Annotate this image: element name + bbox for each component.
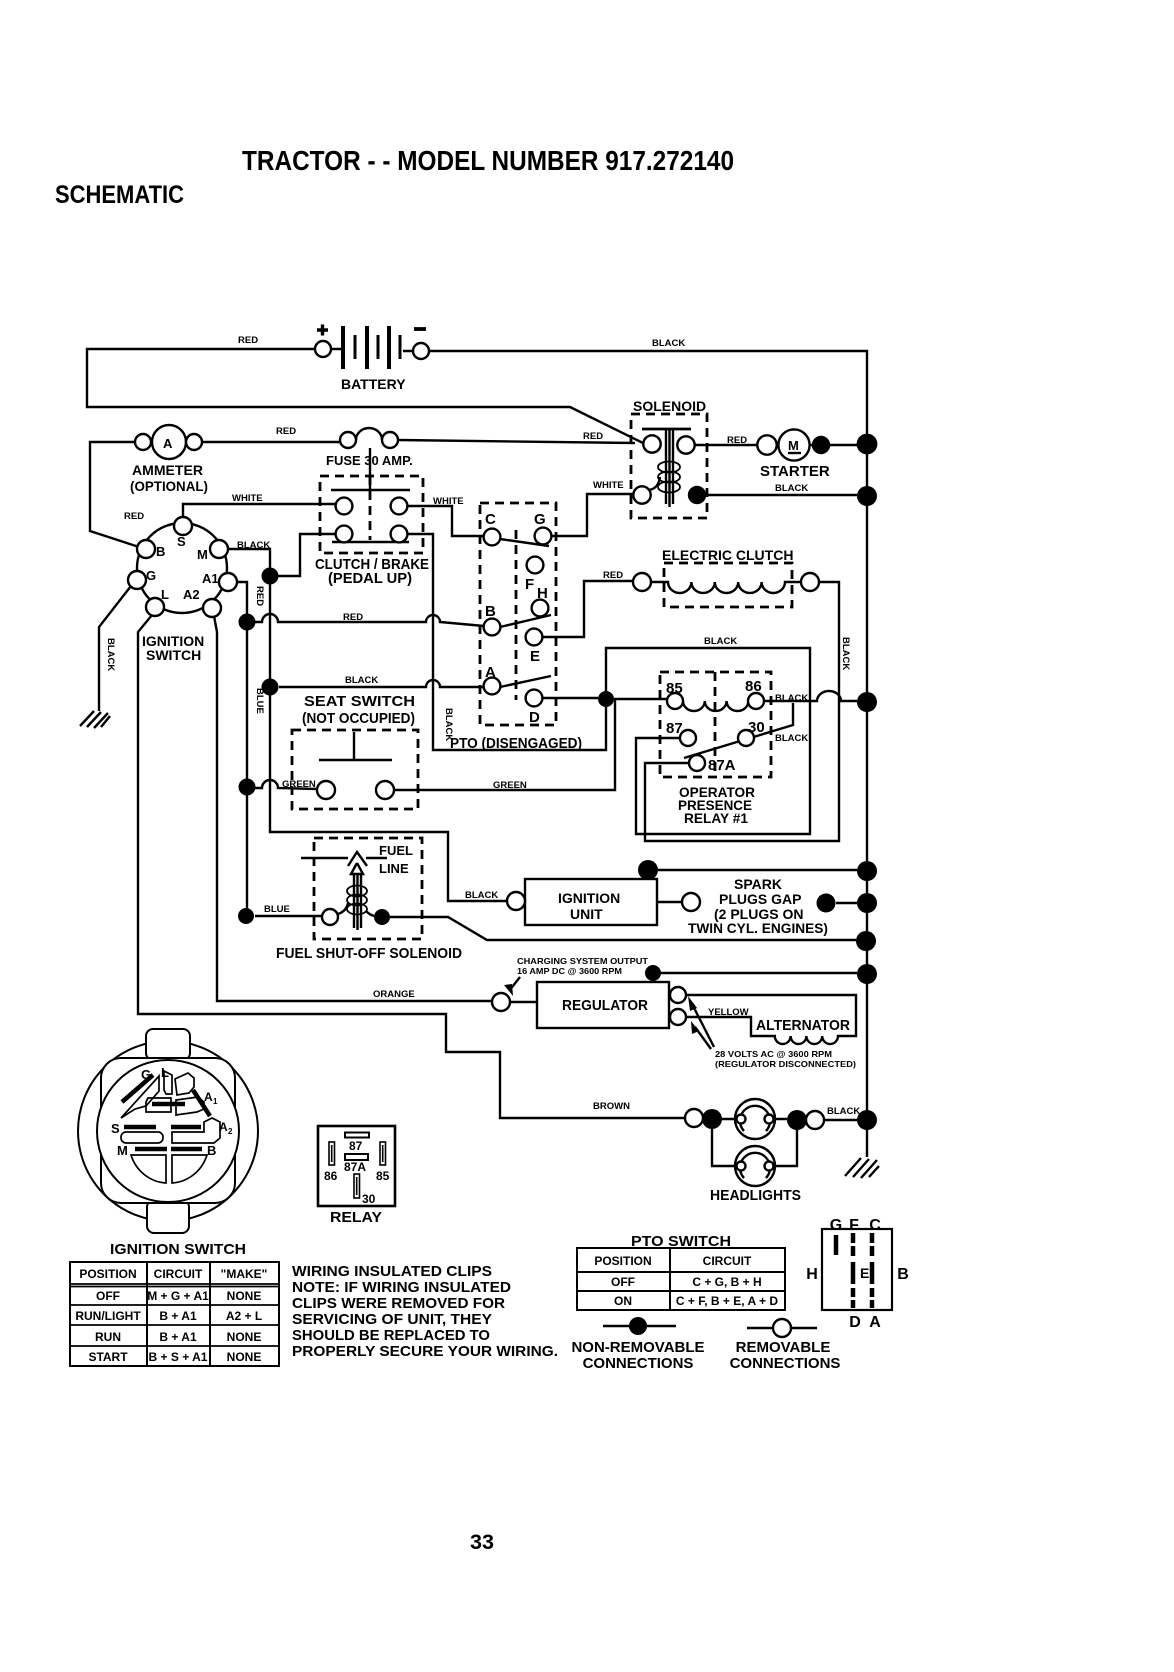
svg-text:C + G, B + H: C + G, B + H [692,1275,761,1289]
svg-text:G: G [534,511,546,528]
svg-text:A: A [163,436,173,451]
svg-text:A: A [869,1314,881,1331]
svg-text:RED: RED [583,431,603,442]
svg-text:S: S [177,534,186,549]
svg-text:30: 30 [362,1192,376,1206]
svg-text:B + A1: B + A1 [159,1330,197,1344]
svg-text:TRACTOR - - MODEL NUMBER 917.2: TRACTOR - - MODEL NUMBER 917.272140 [242,145,734,176]
svg-text:B: B [485,603,496,620]
svg-text:NONE: NONE [227,1350,262,1364]
svg-text:(OPTIONAL): (OPTIONAL) [130,478,208,494]
svg-text:FUEL SHUT-OFF SOLENOID: FUEL SHUT-OFF SOLENOID [276,945,462,962]
svg-text:C: C [485,511,496,528]
svg-text:C: C [869,1217,881,1234]
svg-text:BLUE: BLUE [254,688,265,714]
svg-text:S: S [111,1121,120,1136]
svg-text:M: M [788,438,799,453]
svg-text:F: F [525,576,534,593]
svg-text:OFF: OFF [611,1275,635,1289]
svg-text:(REGULATOR DISCONNECTED): (REGULATOR DISCONNECTED) [715,1059,856,1069]
svg-text:85: 85 [376,1169,390,1183]
svg-text:RED: RED [276,426,296,437]
svg-text:AMMETER: AMMETER [132,462,203,478]
svg-text:2: 2 [228,1127,233,1136]
svg-text:BLACK: BLACK [840,637,851,670]
svg-text:ON: ON [614,1294,632,1308]
svg-text:28 VOLTS AC @ 3600 RPM: 28 VOLTS AC @ 3600 RPM [715,1049,832,1059]
svg-text:REGULATOR: REGULATOR [562,997,648,1014]
svg-text:WHITE: WHITE [232,493,263,504]
svg-text:POSITION: POSITION [79,1267,136,1281]
svg-text:87A: 87A [344,1160,366,1174]
svg-text:NONE: NONE [227,1330,262,1344]
svg-text:16 AMP DC @ 3600 RPM: 16 AMP DC @ 3600 RPM [517,966,622,976]
svg-text:M: M [117,1143,128,1158]
svg-text:85: 85 [666,680,683,697]
svg-text:RED: RED [254,586,265,606]
svg-text:WIRING INSULATED CLIPS: WIRING INSULATED CLIPS [292,1263,492,1280]
svg-text:REMOVABLE: REMOVABLE [736,1339,831,1356]
svg-text:HEADLIGHTS: HEADLIGHTS [710,1187,801,1204]
svg-text:CLIPS WERE REMOVED FOR: CLIPS WERE REMOVED FOR [292,1295,505,1312]
svg-text:L: L [161,587,169,602]
svg-text:NON-REMOVABLE: NON-REMOVABLE [571,1339,704,1356]
svg-text:BLACK: BLACK [704,636,737,647]
svg-text:RELAY #1: RELAY #1 [684,810,748,826]
svg-text:D: D [849,1314,861,1331]
svg-text:86: 86 [324,1169,338,1183]
svg-text:SCHEMATIC: SCHEMATIC [55,181,184,209]
svg-text:SPARK: SPARK [734,876,782,892]
svg-text:IGNITION SWITCH: IGNITION SWITCH [110,1241,246,1258]
svg-text:PROPERLY SECURE YOUR WIRING.: PROPERLY SECURE YOUR WIRING. [292,1343,558,1360]
svg-text:BLACK: BLACK [775,483,808,494]
svg-text:NOTE: IF WIRING INSULATED: NOTE: IF WIRING INSULATED [292,1279,511,1296]
svg-text:OFF: OFF [96,1289,120,1303]
svg-text:BLACK: BLACK [345,675,378,686]
svg-text:M + G + A1: M + G + A1 [147,1289,209,1303]
svg-text:A: A [219,1120,228,1134]
svg-text:RED: RED [343,612,363,623]
svg-text:87: 87 [349,1139,363,1153]
svg-text:(PEDAL UP): (PEDAL UP) [328,570,412,587]
svg-text:FUEL: FUEL [379,843,413,858]
svg-text:ELECTRIC CLUTCH: ELECTRIC CLUTCH [662,547,793,563]
svg-text:G: G [146,568,156,583]
svg-text:RED: RED [603,570,623,581]
svg-text:BLACK: BLACK [105,638,116,671]
svg-text:E: E [860,1265,869,1281]
svg-text:ORANGE: ORANGE [373,989,415,1000]
svg-text:RED: RED [727,435,747,446]
svg-text:BLACK: BLACK [775,733,808,744]
svg-text:B: B [207,1143,216,1158]
svg-text:START: START [88,1350,128,1364]
svg-text:RUN: RUN [95,1330,121,1344]
svg-text:33: 33 [470,1531,494,1554]
svg-text:BLACK: BLACK [237,540,270,551]
svg-text:87: 87 [666,720,683,737]
svg-text:SWITCH: SWITCH [146,647,201,663]
svg-text:WHITE: WHITE [433,496,464,507]
svg-text:BLUE: BLUE [264,904,290,915]
svg-text:B + A1: B + A1 [159,1309,197,1323]
svg-text:ALTERNATOR: ALTERNATOR [756,1017,850,1034]
svg-text:RELAY: RELAY [330,1209,382,1226]
svg-text:FUSE 30 AMP.: FUSE 30 AMP. [326,453,413,468]
svg-text:YELLOW: YELLOW [708,1007,749,1018]
svg-text:30: 30 [748,719,765,736]
svg-text:1: 1 [213,1097,218,1106]
svg-text:H: H [806,1266,818,1283]
svg-text:PLUGS GAP: PLUGS GAP [719,891,801,907]
svg-text:BLACK: BLACK [827,1106,860,1117]
svg-text:BLACK: BLACK [465,890,498,901]
svg-text:RED: RED [238,335,258,346]
svg-text:SOLENOID: SOLENOID [633,398,706,414]
svg-text:B: B [156,544,165,559]
svg-text:A2 + L: A2 + L [226,1309,262,1323]
svg-text:"MAKE": "MAKE" [221,1267,268,1281]
svg-text:LINE: LINE [379,861,409,876]
svg-text:BLACK: BLACK [775,693,808,704]
svg-text:SHOULD BE REPLACED TO: SHOULD BE REPLACED TO [292,1327,490,1344]
svg-text:H: H [537,585,548,602]
svg-text:UNIT: UNIT [570,906,603,922]
svg-text:BATTERY: BATTERY [341,376,406,392]
svg-text:M: M [197,547,208,562]
svg-text:GREEN: GREEN [282,779,316,790]
svg-text:A1: A1 [202,571,219,586]
svg-text:NONE: NONE [227,1289,262,1303]
svg-text:A: A [204,1090,213,1104]
svg-text:A2: A2 [183,587,200,602]
svg-text:BROWN: BROWN [593,1101,630,1112]
svg-text:C + F, B + E, A + D: C + F, B + E, A + D [676,1294,778,1308]
svg-text:WHITE: WHITE [593,480,624,491]
svg-text:TWIN CYL. ENGINES): TWIN CYL. ENGINES) [688,920,828,936]
svg-text:CHARGING SYSTEM OUTPUT: CHARGING SYSTEM OUTPUT [517,956,649,966]
svg-text:87A: 87A [708,757,736,774]
svg-text:SEAT SWITCH: SEAT SWITCH [304,693,415,710]
svg-text:(NOT OCCUPIED): (NOT OCCUPIED) [302,710,415,727]
svg-text:RUN/LIGHT: RUN/LIGHT [75,1309,141,1323]
svg-text:CONNECTIONS: CONNECTIONS [583,1355,694,1372]
svg-text:GREEN: GREEN [493,780,527,791]
svg-text:B: B [897,1266,909,1283]
svg-text:POSITION: POSITION [594,1254,651,1268]
svg-text:CONNECTIONS: CONNECTIONS [730,1355,841,1372]
svg-text:G: G [830,1217,842,1234]
svg-text:L: L [161,1065,169,1080]
svg-text:BLACK: BLACK [652,338,685,349]
svg-text:IGNITION: IGNITION [558,890,620,906]
svg-text:RED: RED [124,511,144,522]
svg-text:CIRCUIT: CIRCUIT [703,1254,752,1268]
svg-text:D: D [529,709,540,726]
svg-text:F: F [849,1217,859,1234]
svg-text:G: G [141,1067,151,1082]
svg-text:STARTER: STARTER [760,463,830,480]
svg-text:86: 86 [745,678,762,695]
svg-text:PTO (DISENGAGED): PTO (DISENGAGED) [450,735,582,752]
svg-text:B + S + A1: B + S + A1 [149,1350,208,1364]
svg-text:CIRCUIT: CIRCUIT [154,1267,203,1281]
svg-text:A: A [485,664,496,681]
svg-text:E: E [530,648,540,665]
svg-text:SERVICING OF UNIT, THEY: SERVICING OF UNIT, THEY [292,1311,492,1328]
